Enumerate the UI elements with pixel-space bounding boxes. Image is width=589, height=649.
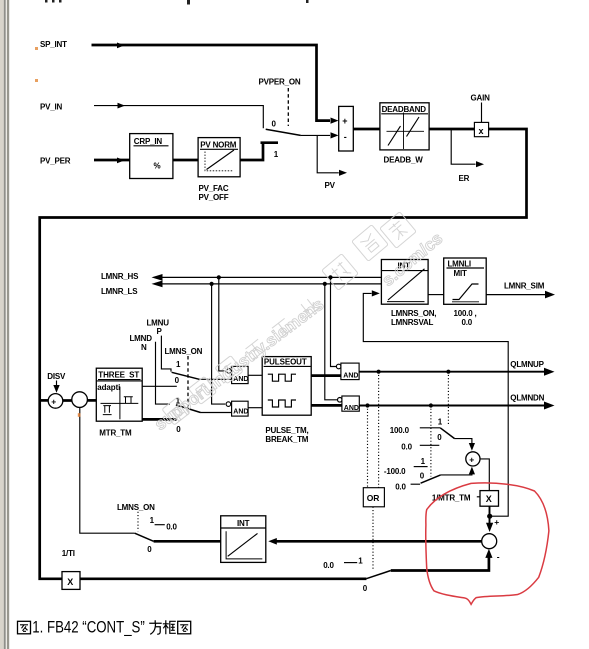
svg-text:1/TI: 1/TI	[62, 549, 75, 558]
wire switch to summer minus	[301, 132, 339, 138]
wire multiplier down to summer plus	[486, 506, 499, 532]
svg-text:LMNS_ON: LMNS_ON	[117, 503, 155, 512]
gate AND1	[227, 366, 249, 383]
svg-text:LMND: LMND	[130, 334, 153, 343]
wire LMNR_LS	[152, 281, 382, 288]
switch C blade	[440, 428, 475, 451]
wire multiplier circle down to LMNS_ON switch	[80, 407, 135, 533]
svg-text:LMNS_ON: LMNS_ON	[165, 347, 203, 356]
node LMNR_HS	[101, 272, 139, 281]
svg-text:-100.0: -100.0	[384, 467, 406, 476]
svg-text:N: N	[141, 343, 147, 352]
wire summer K to multiplier MTR	[480, 459, 489, 491]
switch A contact 0 label	[175, 376, 180, 385]
wire THREE_ST upper output	[142, 385, 177, 387]
wire dotted QLMNUP to switch C	[447, 372, 449, 424]
wire PV_IN	[94, 103, 263, 129]
switch D blade	[421, 467, 475, 484]
node QLMNUP	[510, 360, 544, 369]
svg-text:PVPER_ON: PVPER_ON	[259, 78, 301, 87]
svg-text:PV NORM: PV NORM	[200, 140, 236, 149]
node 1/MTR_TM	[432, 494, 480, 503]
caption figure 1	[18, 619, 191, 637]
junction dots LMNR lines	[210, 275, 333, 286]
switch B blade	[176, 405, 232, 413]
svg-text:0.0: 0.0	[401, 442, 412, 451]
node DEADB_W	[384, 156, 424, 165]
svg-text:PULSEOUT: PULSEOUT	[264, 358, 307, 367]
svg-text:LMNRS_ON,: LMNRS_ON,	[391, 309, 436, 318]
junction dots QLMN lines	[365, 370, 450, 408]
svg-text:GAIN: GAIN	[471, 94, 491, 103]
node LMNUP	[147, 318, 170, 336]
svg-text:0.0: 0.0	[395, 482, 406, 491]
wire LMNDN to switch contact 1	[156, 342, 171, 404]
svg-text:1. FB42 “CONT_S”: 1. FB42 “CONT_S”	[32, 619, 145, 637]
gate AND3	[336, 363, 359, 380]
svg-text:1: 1	[150, 516, 155, 525]
wire dotted OR output	[372, 507, 374, 571]
multiplier X 1/TI	[62, 549, 80, 589]
block INT upper	[381, 260, 428, 305]
wire LMNR_HS to AND3 bubble	[331, 277, 337, 366]
svg-text:1: 1	[438, 417, 443, 426]
node PV	[325, 181, 336, 190]
svg-text:1: 1	[274, 150, 279, 159]
wire QLMNUP output	[359, 368, 554, 376]
svg-text:LMNLI: LMNLI	[448, 259, 471, 268]
svg-text:-: -	[497, 551, 500, 561]
stray orange mark	[78, 413, 81, 417]
node MTR_TM	[99, 428, 132, 437]
block DEADBAND	[380, 103, 429, 150]
svg-text:0.0: 0.0	[166, 523, 177, 532]
wire PVPER_ON dashed actuator	[287, 88, 289, 126]
switch F blade	[135, 533, 154, 554]
gate AND4	[338, 396, 360, 412]
node LMNDN	[130, 334, 153, 352]
switch C contact 1	[420, 417, 443, 428]
summer circle DISV	[48, 394, 63, 409]
svg-text:X: X	[67, 577, 73, 587]
svg-text:AND: AND	[233, 408, 248, 415]
watermark tile 1 url	[151, 295, 327, 434]
svg-text:0: 0	[176, 425, 181, 434]
svg-text:100.0: 100.0	[390, 426, 410, 435]
annotation red circle	[426, 483, 549, 604]
svg-text:DEADBAND: DEADBAND	[382, 105, 427, 114]
switch E contact 1	[323, 557, 363, 570]
wire LMNR_LS to AND2 bubble	[212, 284, 226, 404]
svg-text:0: 0	[363, 584, 368, 593]
svg-text:LMNU: LMNU	[147, 318, 170, 327]
wire CRP_IN to PV_NORM	[173, 159, 198, 162]
switch A blade	[172, 372, 232, 379]
wire summer to INT lower	[268, 538, 481, 545]
summer circle K	[466, 452, 480, 466]
svg-text:adapti: adapti	[97, 383, 120, 392]
wire PULSEOUT to AND4	[311, 404, 342, 407]
summer U1	[339, 106, 354, 151]
block PULSEOUT	[262, 357, 311, 416]
svg-text:0.0: 0.0	[323, 561, 334, 570]
value 100.0 0.0 under LMNLIMIT	[454, 309, 477, 327]
node PV_FAC PV_OFF	[199, 184, 229, 202]
wire INT to LMNLIMIT	[428, 294, 444, 296]
svg-text:PULSE_TM,: PULSE_TM,	[265, 426, 308, 435]
svg-text:1: 1	[421, 457, 426, 466]
switch C contact 0	[401, 433, 442, 451]
wire summer to multiplier circle	[63, 399, 72, 402]
block LMNLIMIT	[444, 258, 487, 304]
svg-text:+: +	[342, 116, 347, 126]
block PV_NORM	[198, 138, 240, 177]
node PVPER_ON	[259, 78, 301, 87]
wire LMNR_HS	[152, 274, 382, 281]
svg-text:PV_PER: PV_PER	[40, 157, 71, 166]
svg-text:0: 0	[437, 433, 442, 442]
svg-text:LMNR_HS: LMNR_HS	[101, 272, 139, 281]
svg-text:CRP_IN: CRP_IN	[134, 137, 163, 146]
node LMNS_ON lower	[117, 503, 155, 512]
block CRP_IN	[130, 134, 173, 179]
switch F contact 1	[150, 516, 178, 532]
svg-text:0.0: 0.0	[462, 318, 473, 327]
svg-text:BREAK_TM: BREAK_TM	[265, 435, 308, 444]
svg-text:-: -	[344, 132, 347, 142]
svg-text:INT: INT	[237, 519, 250, 528]
svg-text:P: P	[157, 327, 163, 336]
node ER	[459, 174, 470, 183]
switch PVPER_ON position 1	[274, 150, 279, 159]
svg-text:%: %	[154, 162, 161, 171]
wire AND1 to PULSEOUT	[248, 374, 262, 376]
wire LMNR_HS to AND1 bubble	[219, 277, 226, 371]
node QLMNDN	[510, 394, 544, 403]
wire LMNUP to switch contact 1	[161, 336, 171, 372]
wire PV_NORM to switch position 1	[240, 143, 278, 160]
node LMNR_SIM	[504, 281, 545, 290]
watermark tile 1 chinese	[162, 212, 416, 425]
wire THREE_ST lower output	[142, 418, 176, 421]
block INT lower	[221, 516, 266, 563]
svg-text:100.0 ,: 100.0 ,	[454, 309, 477, 318]
switch PVPER_ON blade	[266, 129, 301, 135]
node SP_INT	[40, 40, 67, 49]
wire SP_INT to summer	[92, 43, 339, 124]
wire PV branch	[317, 135, 347, 176]
wire dotted QLMNDN to switch D	[430, 406, 432, 477]
svg-text:x: x	[479, 126, 484, 136]
block THREE_ST	[96, 368, 142, 421]
switch A contact 1 label	[176, 360, 181, 369]
node PULSE_TM BREAK_TM	[265, 426, 308, 444]
switch E blade bottom	[363, 571, 391, 593]
svg-text:MIT: MIT	[454, 269, 467, 278]
wire AND2 to PULSEOUT	[248, 407, 262, 409]
svg-text:AND: AND	[343, 372, 358, 379]
multiplier circle	[72, 392, 88, 408]
wire bottom switch to summer minus	[391, 549, 500, 571]
wire LMNS_ON dotted actuator lower	[137, 512, 139, 532]
svg-text:DEADB_W: DEADB_W	[384, 156, 424, 165]
node PV_PER	[40, 157, 71, 166]
svg-text:MTR_TM: MTR_TM	[99, 428, 132, 437]
svg-text:+: +	[469, 455, 474, 465]
node LMNRS_ON LMNRSVAL	[391, 309, 436, 327]
svg-text:0: 0	[147, 545, 152, 554]
svg-text:PV_FAC: PV_FAC	[199, 184, 229, 193]
value 100.0 switch C	[390, 426, 410, 435]
value -100.0 switch D	[384, 467, 406, 476]
node GAIN	[471, 94, 491, 123]
svg-text:0: 0	[175, 376, 180, 385]
svg-text:ER: ER	[459, 174, 470, 183]
wire ER branch	[451, 129, 484, 167]
wire QLMNDN output	[359, 402, 554, 410]
svg-text:+: +	[494, 517, 499, 527]
svg-text:LMNRSVAL: LMNRSVAL	[391, 318, 434, 327]
svg-text:LMNR_LS: LMNR_LS	[101, 287, 138, 296]
node LMNR_LS	[101, 287, 138, 296]
wire dotted QLMNUP to OR	[378, 372, 380, 488]
wire ER feedback long run	[40, 129, 527, 579]
wire PV_PER	[94, 158, 130, 164]
watermark tile 2 url	[378, 229, 446, 290]
wire LMNS_ON dashed actuator	[187, 356, 189, 411]
switch B contact 0 label	[176, 425, 181, 434]
svg-text:QLMNUP: QLMNUP	[510, 360, 544, 369]
wire LMNR_SIM output	[486, 291, 555, 299]
switch PVPER_ON position 0	[272, 120, 277, 129]
svg-text:PV_IN: PV_IN	[40, 103, 63, 112]
wire branch to summer DISV	[40, 399, 49, 402]
svg-text:1: 1	[358, 557, 363, 566]
svg-text:PV_OFF: PV_OFF	[199, 193, 229, 202]
svg-text:SP_INT: SP_INT	[40, 40, 67, 49]
svg-text:+: +	[51, 397, 56, 407]
svg-text:0: 0	[420, 472, 425, 481]
svg-text:PV: PV	[325, 181, 336, 190]
multiplier X MTR_TM	[480, 491, 499, 507]
node DISV	[47, 372, 66, 393]
wire switch F to INT lower	[154, 540, 221, 543]
switch D contact 1	[414, 457, 428, 466]
switch D contact 0	[395, 472, 425, 492]
gate OR	[363, 488, 384, 507]
svg-text:AND: AND	[344, 405, 359, 412]
wire PULSEOUT to AND3	[311, 374, 341, 377]
wire dotted QLMNDN to OR	[367, 406, 369, 488]
svg-text:DISV: DISV	[47, 372, 66, 381]
svg-text:THREE ST: THREE ST	[98, 371, 139, 380]
svg-text:LMNR_SIM: LMNR_SIM	[504, 281, 545, 290]
summer circle lower	[482, 534, 497, 549]
svg-text:X: X	[486, 494, 492, 504]
multiplier X gain	[474, 122, 488, 136]
wire summer to DEADBAND	[353, 128, 380, 131]
node PV_IN	[40, 103, 63, 112]
gate AND2	[226, 401, 248, 416]
node LMNS_ON	[165, 347, 203, 356]
svg-text:QLMNDN: QLMNDN	[510, 394, 544, 403]
wire integrator feedback from multiplier junction	[363, 290, 508, 519]
switch B contact 1 label	[176, 396, 181, 405]
wire to THREE_ST input	[87, 399, 96, 402]
wire LMNR_LS to AND4 bubble	[325, 284, 338, 400]
svg-text:OR: OR	[367, 493, 379, 503]
wire DEADBAND to multiplier	[429, 128, 474, 131]
